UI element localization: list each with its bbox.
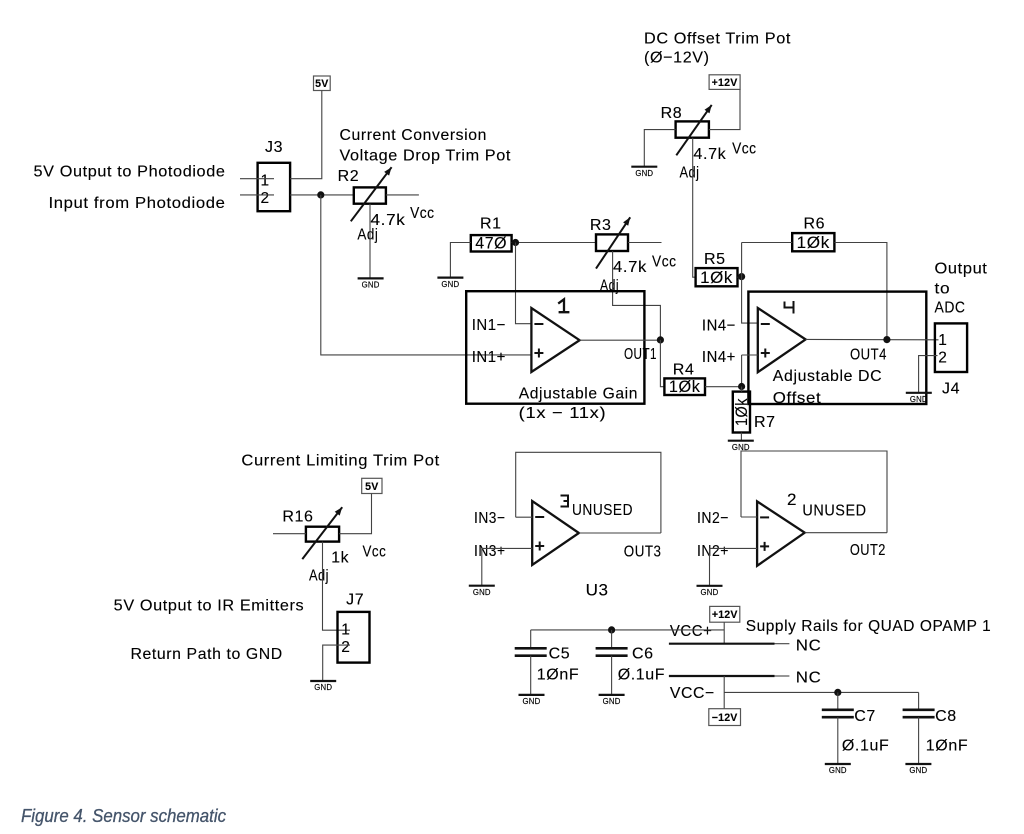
svg-text:GND: GND <box>701 588 719 597</box>
label 5V Output to IR Emitters <box>114 598 305 615</box>
wire R1 right to R3 <box>512 242 596 244</box>
pin line NC 1 stub <box>775 643 790 645</box>
node junction R4/R7/IN4+ <box>738 383 745 390</box>
pin label IN3+ <box>474 543 506 560</box>
node junction J3 pin2 <box>317 191 324 198</box>
wire R2 wiper to ground <box>369 204 371 279</box>
ground at R7 <box>728 441 754 452</box>
ground at R8 <box>631 167 657 178</box>
wire C5 top <box>530 630 532 648</box>
wire R16 left stub <box>273 533 306 535</box>
wire OUT1 <box>580 339 661 341</box>
svg-text:1: 1 <box>341 622 350 639</box>
pin label VCC- <box>670 685 715 702</box>
node OUT4 junction <box>883 336 890 343</box>
wire R5 right to junction <box>738 276 742 278</box>
wire J4 pin2 to ground <box>919 356 938 393</box>
svg-text:5V Output to Photodiode: 5V Output to Photodiode <box>34 164 226 181</box>
wire R1 left to ground <box>450 243 470 278</box>
wire C7 top <box>837 692 839 709</box>
label UNUSED op3 <box>572 502 633 519</box>
wire J3 pin2 to R2 <box>290 194 354 196</box>
svg-text:5V: 5V <box>365 481 378 493</box>
wire C8 top <box>918 692 920 709</box>
svg-text:IN3−: IN3− <box>474 510 506 527</box>
svg-text:NC: NC <box>796 638 822 655</box>
label Current Conversion Voltage Drop Trim Pot <box>340 127 512 165</box>
wire R4 right to junction <box>705 386 742 388</box>
node OUT1 junction <box>657 336 664 343</box>
ground at C5 <box>519 695 545 706</box>
svg-text:5V Output to IR Emitters: 5V Output to IR Emitters <box>114 598 305 615</box>
connector J3 <box>258 139 291 211</box>
wire C8 bottom to ground <box>918 717 920 764</box>
ground at R2 <box>358 278 384 289</box>
svg-text:R16: R16 <box>282 509 313 526</box>
wire IN2+ to ground <box>710 547 758 549</box>
power flag 5V <box>314 76 331 91</box>
wire VCC- pin vertical <box>723 676 725 709</box>
svg-text:1Øk: 1Øk <box>797 234 830 252</box>
pin label VCC+ <box>670 623 713 640</box>
trim pot R2 <box>338 168 386 204</box>
svg-text:R8: R8 <box>661 105 683 122</box>
svg-text:R5: R5 <box>704 251 726 268</box>
ground at R1 <box>437 278 463 289</box>
value label R3 4.7k <box>613 259 647 276</box>
trim pot R8 <box>661 105 709 138</box>
svg-text:GND: GND <box>314 683 332 692</box>
wire IN3+ ground vertical <box>481 548 483 585</box>
svg-text:J3: J3 <box>265 139 283 156</box>
pin label OUT3 <box>624 544 662 561</box>
pin line NC 2 thick <box>669 675 775 677</box>
wire OUT4 <box>806 338 939 340</box>
wire VCC+ rail to caps <box>531 629 725 631</box>
svg-text:to: to <box>935 281 951 298</box>
pin label IN1+ <box>472 349 506 366</box>
svg-text:ADC: ADC <box>935 300 966 317</box>
wire J3 pin 1 stub <box>240 178 274 180</box>
wire 5V to J3 pin1 <box>290 91 322 179</box>
wire R3 right stub <box>628 242 662 244</box>
wire OUT3 <box>579 532 661 534</box>
svg-text:OUT3: OUT3 <box>624 544 662 561</box>
pin line NC 2 stub <box>775 675 790 677</box>
op-amp 3 feedback wire <box>516 452 661 533</box>
svg-text:R3: R3 <box>590 217 612 234</box>
svg-text:C6: C6 <box>632 646 654 663</box>
connector J7 <box>338 592 370 663</box>
pin label NC 1 <box>796 638 822 655</box>
power flag +12V top <box>709 75 740 90</box>
svg-text:GND: GND <box>909 766 927 775</box>
wire R6 right to OUT4 <box>834 243 887 340</box>
wire C6 top <box>611 630 613 648</box>
label Output to ADC <box>935 261 988 317</box>
trim pot R3 <box>590 217 628 251</box>
pin label IN4- <box>702 318 736 335</box>
wire IN2- stub <box>741 516 757 518</box>
wire R8 left to ground <box>644 130 675 167</box>
ground at IN2+ <box>697 586 723 597</box>
label Adjustable DC Offset <box>773 368 882 407</box>
trim pot R2 wiper arrow <box>351 167 392 221</box>
net label Vcc at R3 <box>652 254 677 271</box>
trim pot R3 wiper arrow <box>596 217 630 268</box>
svg-text:Output: Output <box>935 261 988 278</box>
pin label IN4+ <box>702 349 736 366</box>
net label Vcc at R8 <box>732 141 757 158</box>
wire OUT1 down to R4 <box>660 340 664 387</box>
op-amp 1 unit number <box>558 299 569 312</box>
svg-text:2: 2 <box>938 350 947 367</box>
wire R7 bottom to ground <box>740 433 742 441</box>
resistor R7 (vertical) <box>733 392 776 433</box>
svg-text:GND: GND <box>635 169 653 178</box>
power flag +12V supply <box>710 606 740 622</box>
wire +12V to VCC+ pin <box>723 622 725 644</box>
label UNUSED op2 <box>802 503 866 520</box>
resistor R5 <box>696 251 738 287</box>
value label R2 4.7k <box>371 212 406 229</box>
label Current Limiting Trim Pot <box>241 453 439 470</box>
wire R3 wiper to OUT1 <box>613 251 661 340</box>
svg-text:5V: 5V <box>315 78 328 90</box>
svg-text:Input from Photodiode: Input from Photodiode <box>49 195 226 212</box>
svg-text:IN1+: IN1+ <box>472 349 506 366</box>
label Return Path to GND <box>131 646 283 663</box>
wire OUT2 <box>805 532 887 534</box>
value label R16 1k <box>331 550 349 567</box>
wire C5 bottom to ground <box>530 656 532 695</box>
pin label Adj at R16 <box>309 568 329 585</box>
wire J3 pin 2 stub <box>240 194 274 196</box>
wire R8 wiper down to R5 <box>693 138 696 278</box>
svg-text:1: 1 <box>261 172 270 189</box>
label Supply Rails for QUAD OPAMP 1 <box>746 618 992 635</box>
power flag -12V supply <box>709 709 741 726</box>
svg-text:UNUSED: UNUSED <box>802 503 866 520</box>
op-amp 4 unit number glyph <box>785 301 794 314</box>
svg-text:(1x − 11x): (1x − 11x) <box>519 405 607 422</box>
ground at C6 <box>599 695 625 706</box>
svg-text:R1: R1 <box>480 216 502 233</box>
wire junction down to IN1- <box>516 243 532 324</box>
svg-text:Adj: Adj <box>357 227 378 244</box>
wire R6 left <box>742 242 793 244</box>
svg-text:+12V: +12V <box>712 77 738 89</box>
svg-text:IN4+: IN4+ <box>702 349 736 366</box>
wire R16 wiper to J7 pin1 <box>323 542 351 631</box>
capacitor C6 <box>596 646 666 684</box>
ground at C8 <box>905 764 931 775</box>
svg-text:U3: U3 <box>586 581 609 600</box>
svg-text:IN2+: IN2+ <box>697 543 729 560</box>
wire C7 bottom to ground <box>837 717 839 764</box>
pin label IN2+ <box>697 543 729 560</box>
svg-text:Figure 4. Sensor schematic: Figure 4. Sensor schematic <box>21 805 227 826</box>
pin label OUT1 <box>624 346 657 363</box>
svg-text:J4: J4 <box>942 381 960 398</box>
op-amp U1 unit 4 box <box>748 292 926 404</box>
value label R8 4.7k <box>693 146 726 163</box>
svg-text:2: 2 <box>261 190 270 207</box>
capacitor C8 <box>903 708 969 755</box>
op-amp U1 unit 1 box <box>466 291 644 404</box>
pin line NC 1 thick <box>669 643 775 645</box>
pin label Adj at R2 <box>357 227 378 244</box>
svg-text:UNUSED: UNUSED <box>572 502 633 519</box>
pin label IN3- <box>474 510 506 527</box>
svg-text:2: 2 <box>341 639 350 656</box>
svg-text:IN1−: IN1− <box>472 317 506 334</box>
net label Vcc at R16 <box>363 544 387 561</box>
svg-text:(Ø−12V): (Ø−12V) <box>644 50 710 67</box>
resistor R4 <box>664 362 705 396</box>
svg-text:Vcc: Vcc <box>652 254 677 271</box>
svg-text:OUT1: OUT1 <box>624 346 657 363</box>
pin label NC 2 <box>796 670 822 687</box>
svg-text:Vcc: Vcc <box>732 141 757 158</box>
svg-text:Adjustable DC: Adjustable DC <box>773 368 882 385</box>
svg-text:VCC−: VCC− <box>670 685 715 702</box>
wire R16 right to 5V <box>339 494 371 534</box>
op-amp 2 unit number <box>787 490 797 509</box>
capacitor C7 <box>822 708 890 755</box>
svg-text:Current Conversion: Current Conversion <box>340 127 488 144</box>
svg-text:IN4−: IN4− <box>702 318 736 335</box>
wire C6 bottom to ground <box>611 656 613 695</box>
svg-text:Current Limiting Trim Pot: Current Limiting Trim Pot <box>241 453 439 470</box>
svg-text:OUT4: OUT4 <box>850 347 887 364</box>
ground at J7 <box>310 681 336 692</box>
svg-text:R4: R4 <box>673 362 695 379</box>
label DC Offset Trim Pot (0-12V) <box>644 31 791 67</box>
wire IN3- stub <box>516 516 533 518</box>
svg-text:Vcc: Vcc <box>410 205 435 222</box>
svg-text:C7: C7 <box>854 708 876 725</box>
svg-text:IN2−: IN2− <box>697 510 729 527</box>
svg-text:2: 2 <box>787 490 797 509</box>
wire R6 feedback left vertical <box>742 243 758 324</box>
svg-text:Offset: Offset <box>773 390 822 407</box>
label Adjustable Gain (1x - 11x) <box>519 386 638 423</box>
wire op2 feedback loop <box>741 451 887 533</box>
wire J7 pin2 to ground <box>323 645 350 681</box>
svg-text:IN3+: IN3+ <box>474 543 506 560</box>
svg-text:1: 1 <box>938 332 947 349</box>
svg-text:1Øk: 1Øk <box>700 269 733 287</box>
figure caption <box>21 805 227 826</box>
svg-text:GND: GND <box>523 697 541 706</box>
svg-text:4.7k: 4.7k <box>613 259 647 276</box>
op-amp 1 triangle <box>531 308 579 372</box>
pin label OUT4 <box>850 347 887 364</box>
net label text Input from Photodiode <box>49 195 226 212</box>
svg-text:DC Offset Trim Pot: DC Offset Trim Pot <box>644 31 791 48</box>
wire R2 right stub <box>386 194 419 196</box>
svg-text:4.7k: 4.7k <box>693 146 726 163</box>
svg-text:J7: J7 <box>346 592 364 609</box>
reference label U3 <box>586 581 609 600</box>
pin label Adj at R8 <box>680 165 700 182</box>
svg-text:Adjustable Gain: Adjustable Gain <box>519 386 638 403</box>
svg-text:−12V: −12V <box>712 712 738 724</box>
node junction R5/R6/IN4- <box>738 273 745 280</box>
svg-text:Adj: Adj <box>309 568 329 585</box>
ground at IN3+ <box>469 586 495 597</box>
resistor R6 <box>792 216 834 253</box>
svg-text:R7: R7 <box>754 414 776 431</box>
pin label Adj at R3 <box>600 278 619 295</box>
svg-text:1Øk: 1Øk <box>733 398 751 426</box>
svg-text:Vcc: Vcc <box>363 544 387 561</box>
svg-text:VCC+: VCC+ <box>670 623 713 640</box>
svg-text:GND: GND <box>473 588 491 597</box>
svg-text:Ø.1uF: Ø.1uF <box>842 738 889 755</box>
net label text 5V Output to Photodiode <box>34 164 226 181</box>
trim pot R8 wiper arrow <box>676 105 711 155</box>
svg-text:OUT2: OUT2 <box>850 542 886 559</box>
op-amp 3 unit number glyph <box>561 495 569 508</box>
svg-text:1ØnF: 1ØnF <box>926 738 968 755</box>
svg-text:GND: GND <box>603 697 621 706</box>
wire junction down to IN1+ <box>321 195 532 355</box>
svg-text:NC: NC <box>796 670 822 687</box>
svg-text:1ØnF: 1ØnF <box>537 667 579 684</box>
svg-text:R2: R2 <box>338 168 360 185</box>
svg-text:Supply Rails for QUAD OPAMP 1: Supply Rails for QUAD OPAMP 1 <box>746 618 992 635</box>
svg-text:GND: GND <box>829 766 847 775</box>
op-amp 2 triangle <box>757 501 805 565</box>
svg-text:C5: C5 <box>549 646 571 663</box>
wire IN3+ to ground <box>482 547 532 549</box>
svg-text:1k: 1k <box>331 550 349 567</box>
resistor R1 <box>471 216 512 253</box>
wire VCC- rail to caps <box>724 691 918 693</box>
net label Vcc at R2 <box>410 205 435 222</box>
pin label IN1- <box>472 317 506 334</box>
svg-text:1Øk: 1Øk <box>669 378 701 396</box>
connector J4 <box>935 323 967 397</box>
wire IN2+ ground vertical <box>709 548 711 585</box>
power flag 5V at R16 <box>362 478 382 493</box>
trim pot R16 <box>282 509 339 542</box>
svg-text:GND: GND <box>362 281 380 290</box>
pin label IN2- <box>697 510 729 527</box>
ground at C7 <box>825 764 851 775</box>
wire IN4+ down to R4 junction <box>741 355 743 387</box>
wire R8 right to +12V <box>709 89 740 129</box>
svg-text:GND: GND <box>910 395 928 404</box>
svg-text:Adj: Adj <box>680 165 700 182</box>
svg-text:+12V: +12V <box>712 609 738 621</box>
capacitor C5 <box>515 646 580 684</box>
svg-text:Voltage Drop Trim Pot: Voltage Drop Trim Pot <box>340 148 512 165</box>
ground at J4 <box>906 393 932 404</box>
svg-text:Ø.1uF: Ø.1uF <box>618 667 665 684</box>
svg-text:GND: GND <box>441 280 459 289</box>
wire IN4+ net <box>742 354 758 356</box>
node junction C6 tap <box>608 626 615 633</box>
svg-text:Return Path to GND: Return Path to GND <box>131 646 283 663</box>
op-amp 3 triangle <box>532 501 579 565</box>
svg-text:47Ø: 47Ø <box>475 234 507 252</box>
op-amp 4 triangle <box>758 308 806 372</box>
wire R7 top <box>741 387 743 392</box>
svg-text:C8: C8 <box>935 708 957 725</box>
svg-text:R6: R6 <box>804 216 826 233</box>
pin label OUT2 <box>850 542 886 559</box>
node junction C7 tap <box>834 689 841 696</box>
node junction R1/R3/IN1- <box>512 239 519 246</box>
trim pot R16 wiper arrow <box>302 507 342 559</box>
